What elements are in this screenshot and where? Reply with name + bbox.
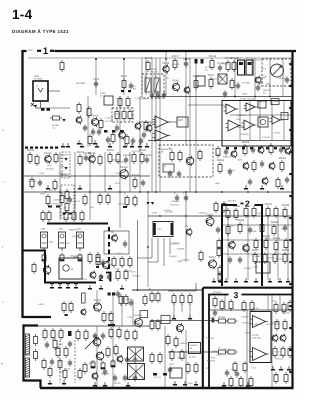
svg-text:AT 6560: AT 6560 — [34, 78, 43, 81]
capacitor C3208 — [123, 154, 131, 164]
wire — [188, 104, 230, 106]
section 2 left label — [82, 273, 111, 284]
svg-text:R469100: R469100 — [112, 159, 121, 162]
lf gnd row — [48, 380, 130, 387]
svg-text:1-4: 1-4 — [12, 7, 33, 22]
af dashed box — [159, 145, 213, 177]
op-amp U4a — [250, 316, 268, 328]
sec3 parts4 — [229, 376, 253, 388]
res 140 — [144, 120, 148, 132]
capacitor C2124 — [183, 58, 191, 68]
fuse box F202 — [246, 57, 253, 76]
section 2 label — [228, 199, 251, 209]
svg-text:C568220: C568220 — [132, 274, 141, 277]
svg-text:C: C — [183, 192, 185, 195]
svg-text:T6893k3: T6893k3 — [189, 344, 198, 347]
wire — [267, 216, 269, 280]
svg-text:SK01: SK01 — [34, 75, 40, 78]
svg-text:C87947n: C87947n — [253, 58, 261, 61]
capacitor C204 — [93, 78, 100, 88]
capacitor C206 — [129, 82, 133, 89]
svg-text:R5301: R5301 — [279, 157, 287, 160]
resistor R5295 — [252, 160, 256, 172]
dark pads — [104, 130, 124, 133]
svg-text:R6341: R6341 — [265, 203, 273, 206]
svg-text:R3220: R3220 — [139, 149, 147, 152]
ic small box 2 — [281, 113, 288, 120]
section 3 inner border — [209, 295, 292, 389]
thin frame box — [104, 231, 129, 254]
svg-text:T6771n: T6771n — [154, 376, 161, 379]
caps — [131, 137, 143, 144]
dark pad — [121, 90, 131, 92]
transistor TS210 — [111, 231, 118, 242]
resistor R205 — [121, 75, 128, 90]
res 223 — [214, 201, 226, 213]
parts 299b — [129, 294, 147, 307]
wire — [174, 303, 190, 318]
resistor R5258 — [242, 141, 250, 156]
svg-text:A213 B9: A213 B9 — [213, 291, 222, 294]
dark pads L — [41, 108, 50, 111]
wire — [165, 52, 167, 95]
caps 242 — [123, 240, 127, 247]
label pair — [76, 82, 86, 85]
svg-text:C86447n: C86447n — [70, 255, 78, 258]
circle det — [184, 86, 190, 95]
svg-text:R483220: R483220 — [223, 156, 232, 159]
resistor R216 — [208, 74, 215, 89]
parts 258 — [88, 252, 100, 264]
resistor R5276 — [269, 143, 273, 155]
parts 316 — [102, 311, 113, 323]
resistor R6421 — [252, 249, 260, 264]
wire — [119, 96, 121, 192]
resistor R6326 — [244, 206, 248, 218]
xformer T1 — [128, 347, 144, 361]
junction — [95, 58, 97, 60]
capacitor C6385 — [283, 224, 287, 231]
transistor — [258, 146, 264, 155]
margin speck4 — [3, 181, 4, 182]
resistor R3157 — [35, 154, 39, 166]
coil L2 — [25, 358, 29, 377]
wire — [59, 152, 61, 192]
parts 262 — [112, 256, 132, 268]
IF can S1 — [41, 228, 48, 252]
transistor TS3183 — [88, 152, 96, 164]
caps 256 — [42, 253, 82, 261]
heavy wire y223 — [47, 223, 108, 225]
resistor R218 — [230, 78, 234, 90]
mb cap — [168, 366, 172, 373]
cap 222 — [216, 226, 220, 233]
tuner wire down — [36, 101, 71, 108]
resistor — [118, 96, 122, 108]
resistor R3218 — [139, 149, 147, 164]
wire — [283, 101, 285, 140]
svg-text:TS: TS — [111, 231, 115, 234]
inner top rule — [28, 57, 292, 59]
svg-text:C7741n: C7741n — [276, 64, 283, 67]
cap in dash — [168, 170, 181, 177]
lf extra2 — [42, 358, 72, 370]
wire — [254, 58, 256, 96]
svg-text:R: R — [219, 347, 221, 350]
res chain 219 — [217, 238, 221, 258]
wire — [164, 326, 166, 388]
res trio2 — [171, 290, 192, 305]
capacitor 293 — [116, 290, 120, 297]
wire jogs — [138, 258, 159, 262]
capacitor C5255 — [224, 148, 228, 155]
edge connector pins — [289, 63, 292, 373]
wire — [287, 216, 289, 280]
LDR cap — [285, 76, 289, 83]
wire — [279, 294, 281, 310]
ic label — [240, 98, 257, 101]
resistor — [126, 96, 130, 108]
svg-text:C94568k: C94568k — [177, 247, 185, 250]
capacitor C6371 — [248, 226, 252, 233]
svg-text:M: M — [71, 268, 73, 271]
transistor TS212 — [43, 262, 51, 275]
svg-text:TS208: TS208 — [120, 166, 128, 169]
label 4.8V — [38, 303, 45, 306]
capacitor C6418 — [238, 256, 242, 263]
svg-text:R4244: R4244 — [132, 174, 140, 177]
svg-text:R216: R216 — [208, 74, 215, 77]
wire — [89, 152, 91, 192]
label dash — [161, 148, 173, 154]
svg-text:R8903k3: R8903k3 — [207, 360, 216, 363]
svg-text:V: V — [36, 85, 38, 88]
mb av box — [189, 343, 201, 359]
svg-text:R6324: R6324 — [233, 205, 241, 208]
capacitor C2138 — [217, 62, 225, 72]
mb box3 — [170, 368, 182, 378]
svg-text:1: 1 — [43, 46, 49, 57]
wire — [59, 192, 61, 220]
ground bar row — [61, 143, 149, 148]
svg-text:L751470: L751470 — [113, 113, 122, 116]
resistor R6391 — [254, 238, 258, 250]
svg-text:R608330: R608330 — [253, 323, 262, 326]
wire pin2 — [168, 351, 219, 353]
capacitor C6414 — [228, 256, 232, 263]
part 201 — [199, 250, 203, 262]
svg-text:TS204: TS204 — [91, 115, 99, 118]
svg-text:R45010k: R45010k — [61, 154, 69, 157]
lf circle — [117, 355, 123, 364]
resistor R5312 — [276, 177, 280, 189]
transistor TS215 — [185, 225, 192, 236]
svg-text:B2 F4032: B2 F4032 — [76, 82, 86, 85]
annotation texts — [28, 58, 290, 385]
op-amp U4b — [250, 348, 269, 361]
wire — [227, 216, 229, 280]
resistor R4233 — [30, 177, 34, 189]
op-amp U1b — [244, 103, 258, 111]
transistor TS222 — [176, 323, 183, 333]
wire — [195, 58, 197, 192]
parts 216 — [64, 210, 84, 222]
resistor R6345 — [274, 206, 278, 218]
ic audio box — [250, 312, 271, 363]
section 3 outer border right — [203, 287, 293, 289]
resistor R6364 — [237, 219, 245, 234]
svg-text:C968100: C968100 — [181, 258, 190, 261]
wire y97 top — [150, 96, 292, 98]
gnd L — [77, 140, 97, 145]
transistor — [262, 177, 268, 186]
wire — [185, 330, 187, 388]
parts 196 — [45, 191, 72, 206]
capacitor C4249 — [141, 179, 145, 186]
svg-text:L865220: L865220 — [278, 77, 287, 80]
sec2 box small — [256, 262, 270, 273]
caps 278 — [99, 273, 111, 280]
circle 2 — [135, 122, 141, 131]
sq box inner — [63, 265, 73, 271]
lf res 35 — [34, 334, 38, 361]
wire — [249, 101, 251, 140]
svg-text:C537330: C537330 — [165, 211, 174, 214]
wire — [145, 58, 147, 95]
svg-text:L86810u: L86810u — [259, 76, 267, 79]
mid extra parts — [83, 118, 115, 146]
svg-text:C83922k: C83922k — [134, 314, 142, 317]
transistor TS213 — [103, 260, 110, 270]
mixer cross — [218, 74, 227, 84]
wire — [269, 58, 271, 96]
junction — [123, 58, 125, 60]
res below ts — [218, 265, 222, 283]
lf row2 — [56, 346, 68, 358]
resistor R2144 — [225, 57, 233, 72]
wire — [87, 96, 89, 147]
svg-text:C5314k7: C5314k7 — [198, 212, 207, 215]
wire — [267, 294, 269, 310]
box flt — [104, 96, 113, 105]
lf circles2 — [92, 372, 98, 381]
sec3 caps — [225, 369, 239, 377]
wire y326 lower — [38, 325, 150, 327]
dashed strip B — [61, 185, 74, 218]
svg-text:R: R — [149, 288, 151, 291]
svg-text:C8105k6: C8105k6 — [28, 180, 37, 183]
lf row1 — [43, 328, 63, 340]
svg-text:R63756: R63756 — [114, 382, 122, 385]
IF can S3 — [77, 228, 84, 252]
wire — [168, 121, 177, 123]
mb parts0 — [149, 288, 160, 303]
transistor TS2109 — [162, 62, 170, 74]
capacitor C5278 — [279, 146, 283, 153]
res L3 — [87, 106, 91, 118]
resistor R6330 — [252, 206, 256, 218]
resistor R214 — [193, 75, 200, 90]
arrow — [62, 119, 65, 122]
svg-text:R8421k: R8421k — [126, 298, 133, 301]
svg-text:R5051n: R5051n — [118, 203, 125, 206]
svg-text:R: R — [124, 192, 126, 195]
wire — [123, 58, 125, 95]
sec3 parts3 — [274, 372, 288, 384]
resistor R6336 — [265, 203, 273, 218]
wire — [104, 152, 106, 192]
wire y310 sec3 — [209, 309, 292, 311]
crystal filter dashed box — [142, 74, 164, 98]
svg-text:DET: DET — [178, 119, 183, 122]
section 2 border right — [255, 205, 263, 286]
svg-text:TDA 2611: TDA 2611 — [252, 337, 262, 340]
wire — [185, 192, 187, 262]
resistor R3169 — [77, 151, 85, 166]
svg-text:L84310u: L84310u — [134, 322, 142, 325]
sec3 res row — [220, 299, 233, 311]
diode d1 — [211, 317, 215, 324]
gnd row rt — [244, 185, 284, 190]
svg-text:C2129: C2129 — [183, 58, 191, 61]
res in dash1 — [169, 147, 174, 162]
cap pair top — [174, 192, 188, 202]
svg-text:R6440: R6440 — [282, 249, 290, 252]
svg-text:C204: C204 — [93, 78, 100, 81]
hres in3 — [216, 347, 228, 354]
lf row2b — [106, 344, 118, 358]
svg-text:R6355: R6355 — [282, 204, 290, 207]
ic small box 1 — [271, 99, 279, 105]
hres in4 — [226, 350, 238, 354]
hres in1 — [216, 316, 228, 323]
svg-text:MC/A 3.5: MC/A 3.5 — [237, 114, 246, 117]
svg-text:R77368k: R77368k — [242, 82, 250, 85]
IF can S2 — [59, 228, 66, 252]
ic outline — [222, 101, 291, 147]
cap C222 — [256, 84, 260, 91]
transistor TS218 — [94, 299, 102, 312]
gnd row sq — [50, 284, 78, 289]
frame left step — [22, 316, 52, 318]
svg-text:TS: TS — [93, 334, 97, 337]
svg-text:TS185: TS185 — [88, 152, 96, 155]
svg-text:C74710u: C74710u — [139, 98, 147, 101]
det box — [177, 117, 188, 127]
transistor TS205 — [119, 130, 126, 140]
section 3 outer border — [202, 288, 204, 388]
svg-text:T900330: T900330 — [206, 337, 215, 340]
wire y115 mid — [230, 114, 292, 116]
wire — [112, 326, 114, 388]
svg-text:C9592n2: C9592n2 — [169, 255, 178, 258]
dash part — [74, 195, 76, 208]
resistor R6359 — [226, 224, 230, 236]
sec3 gnd — [271, 366, 291, 371]
svg-text:A212: A212 — [82, 278, 88, 281]
resistor R4238 — [53, 179, 57, 191]
lf ecaps — [91, 359, 115, 369]
wire — [189, 58, 191, 192]
svg-text:R643220: R643220 — [101, 372, 110, 375]
resistor R5300 — [279, 157, 287, 172]
wire — [121, 296, 123, 326]
transistor TS221 — [96, 351, 104, 362]
resistor R6439 — [282, 249, 290, 264]
wire — [247, 216, 249, 280]
op-amp U2b — [242, 120, 257, 130]
svg-text:R6311M: R6311M — [243, 321, 251, 324]
section 1 label — [27, 46, 55, 58]
labels — [100, 92, 106, 98]
wire — [159, 58, 161, 192]
transistor TS211 — [206, 214, 214, 227]
svg-text:R1.5k: R1.5k — [219, 316, 226, 319]
wire — [271, 101, 273, 140]
svg-text:R6427: R6427 — [252, 249, 260, 252]
sec3 res right — [274, 300, 292, 314]
tuner symbol — [36, 85, 43, 92]
diag pot — [85, 337, 97, 349]
trans TS202 — [255, 76, 261, 85]
svg-text:AV 300: AV 300 — [189, 356, 196, 359]
svg-text:R519100: R519100 — [170, 204, 179, 207]
dashed filt — [112, 108, 133, 122]
lf row1c — [109, 327, 137, 341]
lf caps3 — [113, 374, 137, 381]
arrow pair — [146, 202, 154, 205]
bus wire y176 — [22, 175, 150, 177]
svg-text:TS: TS — [185, 225, 189, 228]
wire pin1 — [150, 320, 219, 322]
svg-text:C6631M: C6631M — [179, 342, 187, 345]
tall rect part — [82, 293, 86, 303]
resistor R6376 — [271, 221, 279, 236]
svg-text:C46022k: C46022k — [61, 173, 69, 176]
mid extra parts2 — [115, 124, 146, 146]
wire — [139, 96, 141, 192]
wire — [282, 58, 284, 96]
lf caps2 — [125, 356, 137, 363]
wire — [140, 121, 155, 123]
res in dash — [115, 109, 132, 121]
wire — [119, 192, 121, 228]
frame right border — [291, 50, 293, 389]
crystal X201 — [145, 75, 152, 92]
resistor R4242 — [132, 174, 140, 189]
gnd row1 — [46, 185, 112, 190]
dark bars 205 — [48, 206, 127, 209]
svg-text:3: 3 — [234, 290, 239, 300]
wire x137 — [137, 220, 139, 290]
svg-text:R205: R205 — [121, 75, 128, 78]
dark pads 294 — [108, 293, 116, 296]
svg-text:FM 10.7: FM 10.7 — [150, 71, 158, 74]
wire — [95, 58, 97, 95]
ic pin row — [226, 147, 285, 149]
sec3 circles — [272, 334, 286, 343]
circle in dash — [186, 156, 194, 167]
frame top border — [22, 50, 296, 52]
wire — [141, 58, 143, 95]
sec3 right parts — [275, 319, 287, 331]
ic label2 — [237, 114, 246, 117]
svg-text:R85668k: R85668k — [69, 228, 77, 231]
crystal X202 — [154, 75, 161, 92]
op-amp U3b — [153, 130, 171, 141]
transistor — [285, 147, 291, 156]
resistor R6431 — [263, 252, 267, 264]
